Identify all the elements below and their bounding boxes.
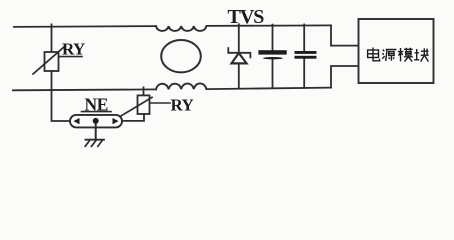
varistor RY1 body: [45, 52, 59, 71]
wire right vertical upper + stub to module: [331, 25, 359, 45]
capacitor C2 top plate: [295, 51, 317, 54]
power module box: [359, 19, 434, 83]
NE center electrode stem: [95, 123, 97, 140]
char 模: [398, 48, 413, 62]
varistor RY1 diagonal stroke: [33, 47, 64, 74]
gas discharge tube NE capsule: [70, 115, 122, 128]
capacitor C1 branch wire upper: [272, 25, 274, 51]
inductor top coil (4 scallops): [156, 26, 206, 31]
wire RY1 to NE (vertical through L2, elbow to capsule): [52, 71, 71, 121]
svg-text:TVS: TVS: [228, 6, 265, 28]
inductor bottom coil (4 bumps): [156, 83, 206, 89]
char 源: [382, 50, 396, 62]
wire L1 top line right segment: [207, 24, 332, 27]
svg-text:RY: RY: [171, 96, 194, 115]
char 电: [368, 48, 380, 61]
RY1 label leader line: [59, 56, 83, 58]
capacitor C2 branch wire lower: [303, 59, 305, 88]
TVS diode triangle: [232, 53, 247, 63]
capacitor C1 branch wire lower: [272, 59, 274, 88]
wire RY1 branch vertical: [51, 24, 53, 52]
capacitor C2 branch wire upper: [303, 25, 305, 52]
TVS branch wire upper: [238, 24, 240, 53]
wire right vertical lower + stub to module: [331, 66, 359, 88]
wire L2 bottom line right segment: [207, 88, 332, 90]
varistor RY2 body: [138, 95, 150, 114]
ground horizontal bar: [86, 139, 105, 141]
NE label underline: [82, 111, 112, 113]
capacitor C2 bottom plate: [295, 56, 317, 59]
char 块: [414, 48, 429, 61]
TVS branch wire lower: [238, 63, 240, 88]
NE arrow left (electrode): [74, 118, 80, 124]
choke core circle: [161, 40, 201, 72]
label 电源模块 (power module) drawn as strokes: [368, 48, 429, 62]
varistor RY2 diagonal stroke: [120, 97, 152, 116]
NE arrow right (electrode): [113, 118, 119, 124]
ground hatch strokes: [85, 140, 103, 147]
svg-text:RY: RY: [62, 39, 85, 58]
capacitor C1 top plate (thick): [258, 50, 286, 54]
wire NE right terminal to RY2: [122, 114, 144, 121]
NE center dot: [93, 118, 99, 124]
svg-text:NE: NE: [85, 95, 109, 115]
wire L2 bottom line left segment: [13, 88, 156, 91]
RY2 label leader line: [150, 102, 170, 104]
TVS diode cathode bar with bent tips: [228, 48, 250, 57]
capacitor C1 bottom plate: [263, 57, 283, 59]
varistor RY2 branch wire upper: [143, 87, 145, 95]
wire L1 top line left segment: [14, 25, 156, 28]
